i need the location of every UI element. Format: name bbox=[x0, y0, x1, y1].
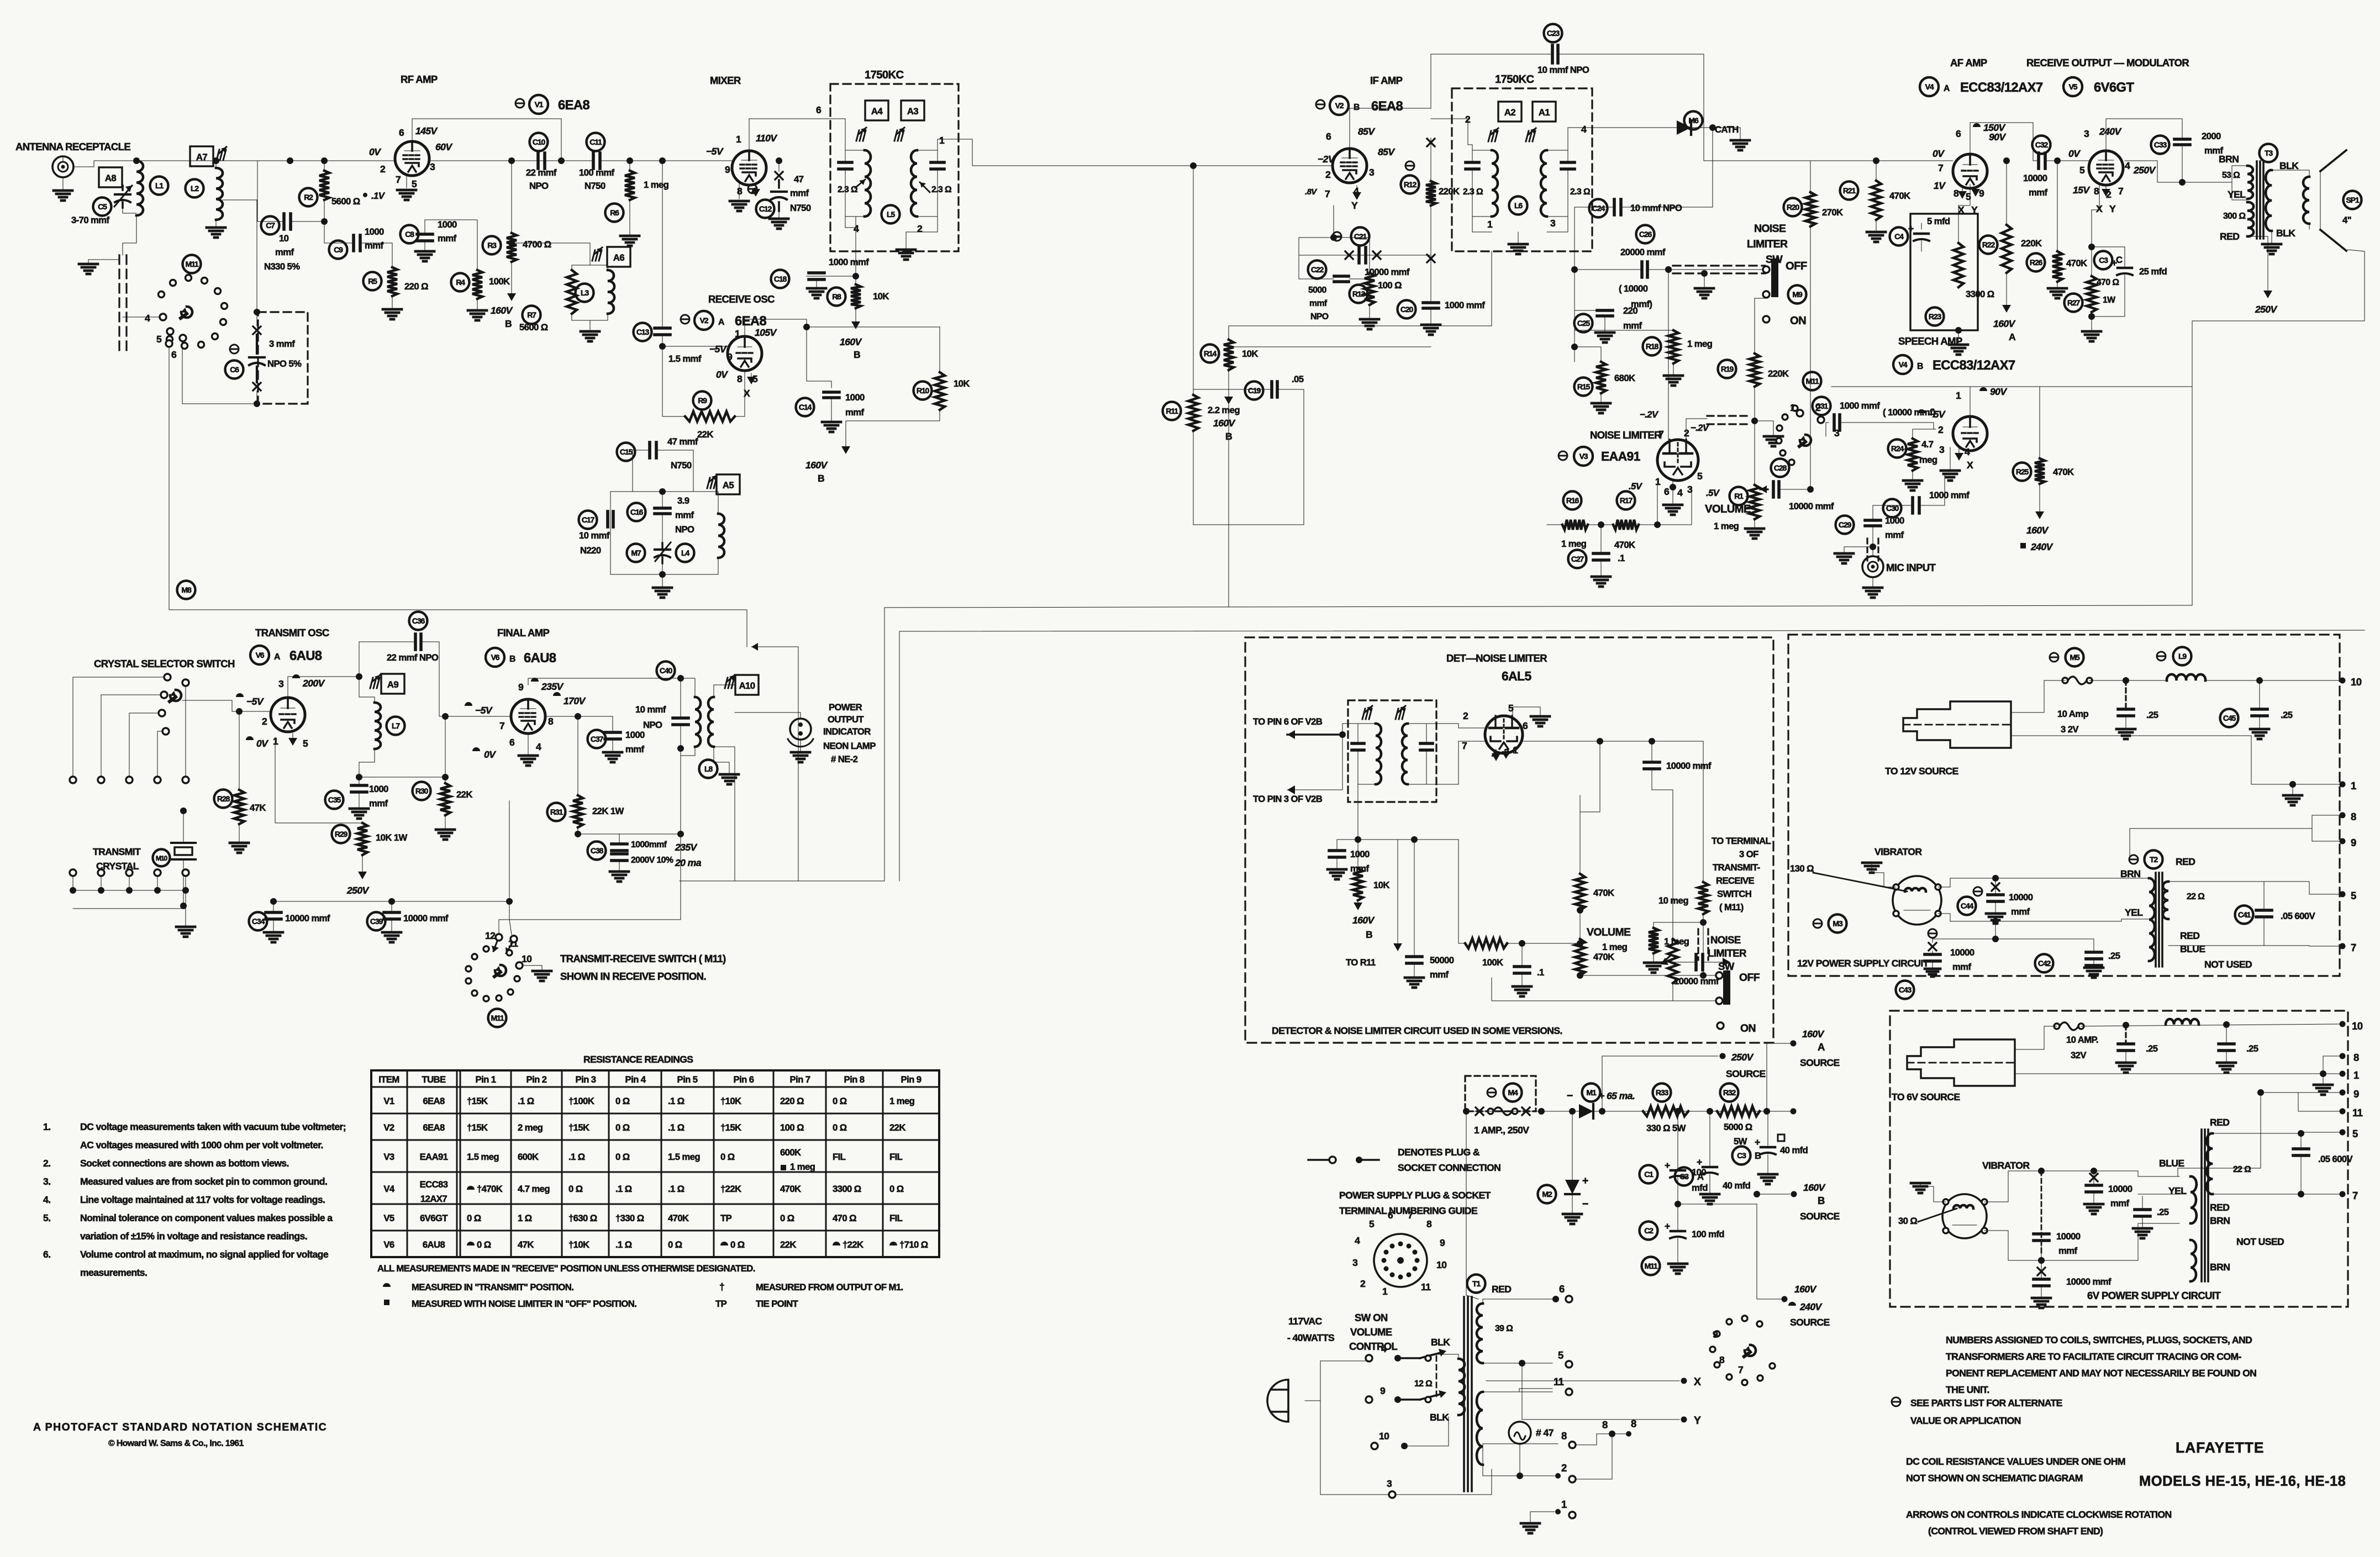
svg-text:C38: C38 bbox=[591, 846, 604, 855]
resistor R26 470K bbox=[2054, 157, 2061, 164]
svg-text:2000: 2000 bbox=[2202, 131, 2221, 141]
svg-text:M9: M9 bbox=[1792, 290, 1803, 299]
capacitor C13 1.5mmf bbox=[655, 326, 670, 330]
svg-text:4: 4 bbox=[145, 313, 150, 324]
svg-text:NPO: NPO bbox=[1310, 312, 1329, 321]
svg-text:R33: R33 bbox=[1656, 1088, 1669, 1097]
svg-text:Pin 2: Pin 2 bbox=[526, 1074, 547, 1085]
svg-text:R13: R13 bbox=[1352, 289, 1366, 298]
svg-text:1: 1 bbox=[736, 134, 741, 145]
svg-text:C: C bbox=[2116, 255, 2123, 265]
svg-text:mmf: mmf bbox=[365, 240, 383, 251]
svg-text:NOT USED: NOT USED bbox=[2236, 1236, 2284, 1247]
svg-text:T1: T1 bbox=[1472, 1279, 1481, 1288]
svg-text:V3: V3 bbox=[383, 1152, 394, 1162]
svg-text:C43: C43 bbox=[1899, 985, 1912, 994]
svg-text:9: 9 bbox=[727, 351, 733, 362]
svg-text:DET—NOISE LIMITER: DET—NOISE LIMITER bbox=[1446, 652, 1547, 664]
svg-text:2.: 2. bbox=[43, 1158, 50, 1169]
svg-text:6EA8: 6EA8 bbox=[1371, 99, 1403, 114]
svg-text:SPEECH AMP: SPEECH AMP bbox=[1898, 335, 1962, 347]
wire 160V 240V source bbox=[1757, 1299, 1781, 1300]
svg-text:R19: R19 bbox=[1721, 365, 1734, 373]
T1 filament winding bbox=[1477, 1392, 1483, 1465]
svg-text:SHOWN IN RECEIVE POSITION.: SHOWN IN RECEIVE POSITION. bbox=[560, 970, 706, 982]
svg-text:−5V: −5V bbox=[1928, 409, 1946, 420]
svg-text:4: 4 bbox=[1677, 487, 1683, 498]
svg-text:6: 6 bbox=[1664, 486, 1670, 497]
wire IF line to V2B bbox=[972, 165, 1333, 166]
svg-text:160V: 160V bbox=[1802, 1028, 1825, 1039]
ground L5 center bbox=[905, 243, 907, 250]
svg-text:1.5 mmf: 1.5 mmf bbox=[668, 353, 702, 364]
svg-text:mmf: mmf bbox=[675, 510, 694, 520]
wire V1 grid/plate on y291 bbox=[430, 160, 593, 161]
plug 12V connector bbox=[1903, 701, 2011, 748]
wire final output riser x1601 bbox=[884, 608, 885, 881]
svg-text:THE UNIT.: THE UNIT. bbox=[1946, 1384, 1989, 1395]
svg-text:RECEIVE OUTPUT — MODULATOR: RECEIVE OUTPUT — MODULATOR bbox=[2026, 57, 2189, 68]
svg-text:12AX7: 12AX7 bbox=[420, 1194, 447, 1204]
svg-text:A2: A2 bbox=[1504, 107, 1515, 118]
svg-text:6: 6 bbox=[1523, 720, 1528, 731]
svg-text:BLUE: BLUE bbox=[2159, 1158, 2184, 1169]
wire L2 top bbox=[215, 161, 217, 168]
svg-text:2: 2 bbox=[1325, 169, 1331, 180]
svg-text:M11: M11 bbox=[1805, 377, 1819, 386]
wire nl switch line1 bbox=[1580, 975, 1716, 976]
svg-text:6: 6 bbox=[1326, 131, 1331, 142]
diode M1 rectifier bbox=[1582, 1084, 1600, 1102]
node R16/R17 junction bbox=[1598, 521, 1604, 528]
svg-text:10000 mmf: 10000 mmf bbox=[2066, 1276, 2112, 1287]
svg-text:A9: A9 bbox=[387, 679, 398, 690]
svg-text:1W: 1W bbox=[2103, 295, 2115, 305]
svg-text:22K 1W: 22K 1W bbox=[592, 806, 624, 816]
svg-text:10: 10 bbox=[1436, 1259, 1447, 1270]
svg-text:V2: V2 bbox=[700, 316, 709, 325]
wire V2B plate to C23 loop bbox=[1350, 108, 1431, 149]
svg-text:POWER SUPPLY PLUG & SOCKET: POWER SUPPLY PLUG & SOCKET bbox=[1339, 1190, 1491, 1201]
svg-text:6V6GT: 6V6GT bbox=[420, 1213, 448, 1223]
wire 6V plug to terminal 1 bbox=[2015, 1073, 2342, 1074]
svg-text:L3: L3 bbox=[581, 288, 589, 297]
svg-text:2: 2 bbox=[1561, 1462, 1567, 1474]
wire C34/C39 supply line bbox=[273, 901, 509, 902]
svg-text:.25: .25 bbox=[2146, 710, 2158, 720]
svg-text:†: † bbox=[719, 1281, 724, 1292]
terminal 9 and 11 6V bbox=[2340, 1090, 2346, 1096]
wire lamp vertical bbox=[1519, 1444, 1520, 1476]
inductor L6 primary bbox=[1492, 150, 1498, 217]
svg-text:0 Ω: 0 Ω bbox=[889, 1184, 904, 1194]
svg-text:2: 2 bbox=[1684, 427, 1689, 439]
svg-text:ECC83/12AX7: ECC83/12AX7 bbox=[1960, 80, 2043, 95]
diode M2 zener bbox=[1538, 1185, 1556, 1204]
wire screen junction bbox=[546, 716, 578, 717]
svg-text:4: 4 bbox=[1355, 1235, 1360, 1246]
box label A5 with trimmer bbox=[717, 474, 740, 494]
svg-text:6EA8: 6EA8 bbox=[423, 1096, 445, 1106]
svg-text:RED: RED bbox=[2210, 1202, 2229, 1213]
svg-text:B: B bbox=[854, 349, 860, 360]
svg-text:470K: 470K bbox=[1889, 191, 1910, 201]
svg-text:TP: TP bbox=[720, 1213, 732, 1223]
svg-text:B: B bbox=[509, 655, 515, 664]
svg-text:3: 3 bbox=[278, 678, 284, 689]
svg-text:0 Ω: 0 Ω bbox=[615, 1122, 630, 1133]
svg-text:53 Ω: 53 Ω bbox=[2222, 171, 2240, 180]
svg-text:Pin 9: Pin 9 bbox=[901, 1074, 922, 1085]
svg-text:C27: C27 bbox=[1571, 555, 1584, 563]
wire T1 sec bottom to 5 bbox=[1483, 1363, 1552, 1364]
svg-text:V5: V5 bbox=[2069, 82, 2078, 91]
svg-text:SOURCE: SOURCE bbox=[1790, 1317, 1830, 1328]
T1 primary bbox=[1458, 1359, 1465, 1415]
svg-text:C35: C35 bbox=[328, 795, 341, 804]
arrow alt 160V B bbox=[1357, 900, 1359, 909]
wire R11 bottom to volume bus bbox=[1193, 431, 1304, 525]
capacitor alt IFT left bbox=[1352, 742, 1364, 745]
svg-text:L6: L6 bbox=[1514, 201, 1523, 210]
svg-text:B: B bbox=[1818, 1195, 1825, 1206]
svg-text:C3: C3 bbox=[2099, 256, 2108, 265]
svg-text:†100K: †100K bbox=[568, 1096, 594, 1106]
svg-text:M8: M8 bbox=[181, 585, 192, 594]
capacitor alt 1000mmf bbox=[1357, 784, 1359, 840]
svg-text:C11: C11 bbox=[589, 138, 602, 146]
svg-text:4.7 meg: 4.7 meg bbox=[518, 1184, 550, 1194]
wire EAA91 pin bracket bbox=[1657, 482, 1658, 525]
svg-text:R18: R18 bbox=[1646, 342, 1659, 351]
svg-text:INDICATOR: INDICATOR bbox=[823, 726, 871, 737]
svg-text:10: 10 bbox=[2351, 676, 2362, 688]
svg-text:SWITCH: SWITCH bbox=[1717, 889, 1751, 899]
svg-text:90V: 90V bbox=[1989, 131, 2006, 142]
svg-text:OFF: OFF bbox=[1786, 260, 1807, 272]
wire long speech feed y1143 bbox=[899, 630, 2365, 631]
svg-text:1 meg: 1 meg bbox=[790, 1162, 815, 1172]
svg-text:.25: .25 bbox=[2157, 1207, 2169, 1217]
svg-text:6.: 6. bbox=[43, 1249, 50, 1260]
svg-text:240V: 240V bbox=[1799, 1301, 1823, 1312]
wire M9 contact down shield to volume pot bbox=[1755, 298, 1766, 353]
wire 6AL5 plate 2 bbox=[1426, 724, 1486, 728]
svg-text:Pin 7: Pin 7 bbox=[790, 1074, 810, 1085]
resistor R19 220K bbox=[1750, 353, 1760, 387]
svg-text:3300 Ω: 3300 Ω bbox=[833, 1184, 861, 1194]
svg-text:5600 Ω: 5600 Ω bbox=[331, 196, 360, 207]
svg-text:470K: 470K bbox=[2053, 467, 2074, 477]
wire selector bus to ground bbox=[185, 890, 186, 926]
svg-text:100 mmf: 100 mmf bbox=[579, 167, 615, 178]
resistor R9 22K bbox=[662, 346, 663, 416]
wire T2 primary to vibrator bbox=[1995, 878, 2149, 879]
svg-text:L5: L5 bbox=[887, 210, 895, 219]
svg-text:RED: RED bbox=[2176, 856, 2195, 867]
svg-text:VALUE OR APPLICATION: VALUE OR APPLICATION bbox=[1910, 1415, 2021, 1426]
svg-text:B: B bbox=[1755, 1150, 1761, 1161]
wire transmit line from M11 x306 bbox=[169, 610, 747, 647]
svg-text:−: − bbox=[1582, 1198, 1588, 1210]
capacitor C10 22mmf NPO bbox=[536, 153, 540, 168]
shield dashes mic bbox=[1866, 539, 1868, 561]
svg-text:NUMBERS ASSIGNED TO COILS, SW: NUMBERS ASSIGNED TO COILS, SWITCHES, PLU… bbox=[1946, 1334, 2252, 1345]
capacitor C23 10mmf NPO loop bbox=[1431, 54, 1552, 108]
wire 12V top line bbox=[2089, 680, 2167, 681]
resistor R30 22K bbox=[440, 783, 450, 815]
capacitor L6 secondary trimmer bbox=[1561, 161, 1575, 164]
wire receive osc grid bbox=[662, 346, 728, 347]
6V transformer secondary bbox=[2207, 1133, 2213, 1194]
svg-text:YEL: YEL bbox=[2168, 1185, 2187, 1196]
svg-text:1: 1 bbox=[1513, 745, 1518, 756]
svg-text:5W: 5W bbox=[1734, 1136, 1747, 1147]
svg-text:270K: 270K bbox=[1822, 207, 1843, 218]
svg-text:R10: R10 bbox=[917, 386, 930, 395]
svg-text:7: 7 bbox=[1738, 1364, 1744, 1375]
ground mic shield bbox=[1844, 547, 1873, 552]
svg-text:220K: 220K bbox=[1768, 368, 1789, 379]
svg-text:C21: C21 bbox=[1354, 232, 1367, 241]
svg-text:R3: R3 bbox=[487, 241, 497, 250]
svg-text:RF AMP: RF AMP bbox=[401, 73, 438, 85]
svg-text:5: 5 bbox=[2352, 1128, 2358, 1139]
svg-text:3.: 3. bbox=[43, 1176, 50, 1187]
wire V4B plate up to R_big bbox=[1970, 387, 1971, 416]
svg-text:R31: R31 bbox=[550, 807, 564, 816]
svg-text:0 Ω: 0 Ω bbox=[467, 1213, 481, 1223]
wire EAA91 plate 2 to shield node bbox=[1686, 419, 1707, 440]
svg-text:R14: R14 bbox=[1204, 349, 1217, 358]
svg-text:30 Ω: 30 Ω bbox=[1898, 1216, 1917, 1226]
svg-text:0 Ω: 0 Ω bbox=[730, 1239, 745, 1250]
svg-text:1: 1 bbox=[1487, 219, 1493, 230]
svg-text:105V: 105V bbox=[755, 327, 777, 338]
svg-text:5: 5 bbox=[1369, 1218, 1375, 1229]
svg-text:DC COIL RESISTANCE VALUES: DC COIL RESISTANCE VALUES UNDER ONE OHM bbox=[1906, 1456, 2125, 1467]
capacitor C14 1000mmf bbox=[806, 327, 807, 381]
svg-text:R4: R4 bbox=[456, 278, 465, 287]
svg-text:9: 9 bbox=[2353, 1088, 2359, 1100]
wire vibrator to transformer bbox=[1984, 1171, 2041, 1202]
svg-text:3 2V: 3 2V bbox=[2061, 724, 2079, 735]
svg-text:−5V: −5V bbox=[475, 705, 493, 716]
wire EAA91 plate 7 up bbox=[1668, 270, 1669, 440]
wire T2 secondary taps 5 and 7 bbox=[2340, 891, 2346, 898]
svg-text:8: 8 bbox=[1602, 1419, 1608, 1431]
svg-text:BLK: BLK bbox=[2279, 160, 2299, 171]
svg-text:L8: L8 bbox=[704, 764, 713, 773]
capacitor C15 47mmf N750 bbox=[648, 442, 651, 458]
svg-text:5.: 5. bbox=[43, 1212, 50, 1223]
svg-text:.05 600V: .05 600V bbox=[2318, 1154, 2353, 1164]
resistor R7 5600 bbox=[567, 270, 577, 314]
svg-text:C26: C26 bbox=[1639, 230, 1652, 239]
svg-text:6AU8: 6AU8 bbox=[289, 648, 322, 663]
svg-text:C32: C32 bbox=[2035, 140, 2049, 149]
svg-text:160V: 160V bbox=[1803, 1182, 1826, 1193]
svg-text:V4: V4 bbox=[383, 1184, 395, 1194]
svg-text:10K: 10K bbox=[873, 291, 889, 302]
node DENOTES PLUG legend bbox=[1308, 1159, 1328, 1160]
node see-parts-list note bbox=[1892, 1397, 1900, 1406]
svg-text:+: + bbox=[1665, 1221, 1670, 1232]
wire V4A cathode to box bbox=[1958, 184, 1970, 243]
switch M11 rotary (antenna change-over) bbox=[183, 255, 201, 273]
svg-text:NEON LAMP: NEON LAMP bbox=[823, 741, 876, 751]
svg-text:L1: L1 bbox=[155, 181, 164, 190]
transformer T3 output bbox=[2260, 144, 2278, 162]
svg-text:9: 9 bbox=[2351, 837, 2356, 848]
wire 2 terminal bbox=[1555, 1473, 1561, 1479]
svg-text:22 Ω: 22 Ω bbox=[2187, 892, 2205, 901]
shielded cable dashes bbox=[118, 255, 120, 353]
svg-text:NOISE: NOISE bbox=[1710, 934, 1741, 946]
svg-text:0V: 0V bbox=[484, 749, 496, 760]
IF transformer L6 1750KC dashed box bbox=[1452, 88, 1592, 251]
svg-text:1 meg: 1 meg bbox=[889, 1096, 915, 1106]
capacitor C43 10000mmf bbox=[1896, 981, 1914, 999]
svg-text:1000: 1000 bbox=[845, 392, 865, 403]
capacitor alt 10000mmf top bbox=[1600, 741, 1652, 762]
svg-text:1.5 meg: 1.5 meg bbox=[668, 1152, 700, 1162]
svg-text:170V: 170V bbox=[564, 695, 586, 706]
svg-text:LIMITER: LIMITER bbox=[1747, 238, 1788, 250]
svg-text:1 Ω: 1 Ω bbox=[518, 1213, 532, 1223]
svg-text:variation of ±15% in voltage a: variation of ±15% in voltage and resista… bbox=[80, 1231, 307, 1242]
svg-text:1000: 1000 bbox=[1885, 515, 1904, 526]
svg-text:7: 7 bbox=[2118, 186, 2124, 197]
svg-text:C25: C25 bbox=[1577, 319, 1591, 328]
svg-text:250V: 250V bbox=[2133, 165, 2156, 176]
wire B+ line y2012 bbox=[1466, 1111, 1793, 1112]
svg-text:8: 8 bbox=[1631, 1418, 1636, 1429]
resistor R20 270K inline bbox=[1805, 192, 1815, 226]
svg-text:0 Ω: 0 Ω bbox=[615, 1096, 630, 1106]
wire 6AL5 pin5/6 ground bbox=[1513, 707, 1540, 718]
wire V2B screen stub to IFT2 bbox=[1431, 119, 1468, 145]
svg-text:10000: 10000 bbox=[2009, 892, 2033, 902]
capacitor C2 100mfd bbox=[1640, 1222, 1658, 1240]
svg-text:10000: 10000 bbox=[1950, 947, 1974, 958]
svg-text:235V: 235V bbox=[675, 842, 698, 853]
lamp #47 pilot bbox=[1509, 1422, 1531, 1444]
svg-text:Volume control at maximum, no: Volume control at maximum, no signal app… bbox=[80, 1249, 329, 1260]
svg-text:R28: R28 bbox=[217, 794, 230, 803]
svg-text:A6: A6 bbox=[613, 252, 624, 263]
noise limiter switch wiring dashes bbox=[1673, 265, 1765, 266]
svg-text:6V POWER SUPPLY CIRCUIT: 6V POWER SUPPLY CIRCUIT bbox=[2087, 1290, 2221, 1301]
resistor R3 4700 bbox=[511, 161, 512, 188]
wire 6V top line bbox=[2081, 1024, 2342, 1026]
switch row3 bbox=[1389, 1491, 1396, 1498]
capacitor 6V .25 left bbox=[2125, 1025, 2126, 1044]
svg-text:10 Amp: 10 Amp bbox=[2057, 709, 2088, 719]
svg-text:R27: R27 bbox=[2067, 298, 2081, 307]
svg-text:.05 600V: .05 600V bbox=[2281, 911, 2315, 921]
svg-text:Line voltage maintained at 117: Line voltage maintained at 117 volts for… bbox=[80, 1194, 325, 1205]
svg-text:10K 1W: 10K 1W bbox=[376, 832, 408, 843]
svg-text:.1 Ω: .1 Ω bbox=[668, 1122, 684, 1133]
svg-text:†330 Ω: †330 Ω bbox=[615, 1213, 644, 1223]
svg-text:3: 3 bbox=[1939, 444, 1945, 455]
svg-text:10: 10 bbox=[279, 233, 289, 244]
svg-text:1: 1 bbox=[1655, 476, 1661, 487]
resistor R14 10K bbox=[1229, 326, 1492, 340]
svg-text:10K: 10K bbox=[954, 378, 970, 389]
svg-text:160V: 160V bbox=[1993, 318, 2016, 329]
svg-text:1000: 1000 bbox=[625, 730, 645, 740]
svg-text:−5V: −5V bbox=[706, 146, 724, 157]
wire speech line x1628 riser bbox=[899, 631, 900, 881]
wire C25 node down to R15/R18 bus bbox=[1574, 309, 1575, 362]
svg-text:117VAC: 117VAC bbox=[1288, 1316, 1323, 1327]
svg-text:130 Ω: 130 Ω bbox=[1790, 863, 1814, 874]
svg-text:MEASURED IN "TRANSMIT" POSITIO: MEASURED IN "TRANSMIT" POSITION. bbox=[412, 1282, 573, 1292]
resistor alt 10meg bbox=[1652, 741, 1703, 882]
svg-text:2: 2 bbox=[917, 223, 923, 234]
svg-text:C39: C39 bbox=[370, 917, 383, 926]
svg-text:1 meg: 1 meg bbox=[644, 180, 669, 190]
svg-text:C18: C18 bbox=[774, 275, 787, 283]
svg-text:LIMITER: LIMITER bbox=[1708, 947, 1746, 959]
svg-text:B: B bbox=[1917, 362, 1923, 371]
svg-text:+: + bbox=[1755, 1137, 1760, 1148]
wire final output bottom bbox=[680, 880, 884, 882]
svg-text:.1 Ω: .1 Ω bbox=[615, 1184, 632, 1194]
svg-text:A: A bbox=[1818, 1041, 1825, 1053]
svg-text:47K: 47K bbox=[518, 1239, 534, 1250]
capacitor C44 10000mmf bbox=[1973, 887, 1982, 896]
svg-text:200V: 200V bbox=[302, 678, 325, 689]
svg-text:5600 Ω: 5600 Ω bbox=[519, 322, 548, 332]
svg-text:2: 2 bbox=[1463, 710, 1468, 721]
svg-text:R25: R25 bbox=[2016, 467, 2029, 476]
svg-text:.8V: .8V bbox=[1305, 187, 1318, 197]
arrow R10 160V B bbox=[846, 410, 940, 421]
svg-text:C15: C15 bbox=[620, 447, 633, 456]
wire 8 bracket bbox=[1576, 1434, 1629, 1445]
capacitor C22 5000mmf NPO bbox=[1298, 255, 1299, 279]
resistor R22 220K bbox=[2006, 161, 2007, 225]
svg-text:BRN: BRN bbox=[2210, 1215, 2230, 1226]
svg-text:600K: 600K bbox=[518, 1152, 539, 1162]
svg-text:TO 12V SOURCE: TO 12V SOURCE bbox=[1885, 766, 1959, 777]
wire 160V B source bbox=[1757, 1194, 1790, 1195]
svg-text:†22K: †22K bbox=[720, 1184, 741, 1194]
svg-text:100 Ω: 100 Ω bbox=[1378, 280, 1402, 291]
svg-text:1750KC: 1750KC bbox=[1495, 73, 1534, 86]
box label A10 trimmer bbox=[735, 675, 759, 695]
svg-text:+ 65 ma.: + 65 ma. bbox=[1599, 1090, 1635, 1101]
svg-text:10: 10 bbox=[2352, 1020, 2363, 1032]
svg-text:47 mmf: 47 mmf bbox=[667, 436, 698, 447]
box label A7 with trimmer bbox=[190, 146, 213, 166]
wire filament 11 bbox=[1483, 1389, 1552, 1392]
svg-text:TRANSFORMERS ARE TO FACILIT: TRANSFORMERS ARE TO FACILITATE CIRCUIT T… bbox=[1946, 1351, 2242, 1362]
svg-text:22K: 22K bbox=[456, 789, 472, 800]
svg-text:V6: V6 bbox=[256, 651, 265, 659]
svg-text:1: 1 bbox=[939, 135, 945, 146]
svg-text:4.7: 4.7 bbox=[1921, 439, 1934, 450]
svg-text:Y: Y bbox=[1351, 200, 1358, 211]
wire AC plug to switch bbox=[1305, 1361, 1366, 1401]
svg-text:3-70 mmf: 3-70 mmf bbox=[71, 215, 110, 225]
svg-text:5: 5 bbox=[303, 738, 308, 749]
svg-text:9: 9 bbox=[1979, 188, 1984, 199]
svg-text:TO PIN 6 OF V2B: TO PIN 6 OF V2B bbox=[1253, 716, 1323, 727]
